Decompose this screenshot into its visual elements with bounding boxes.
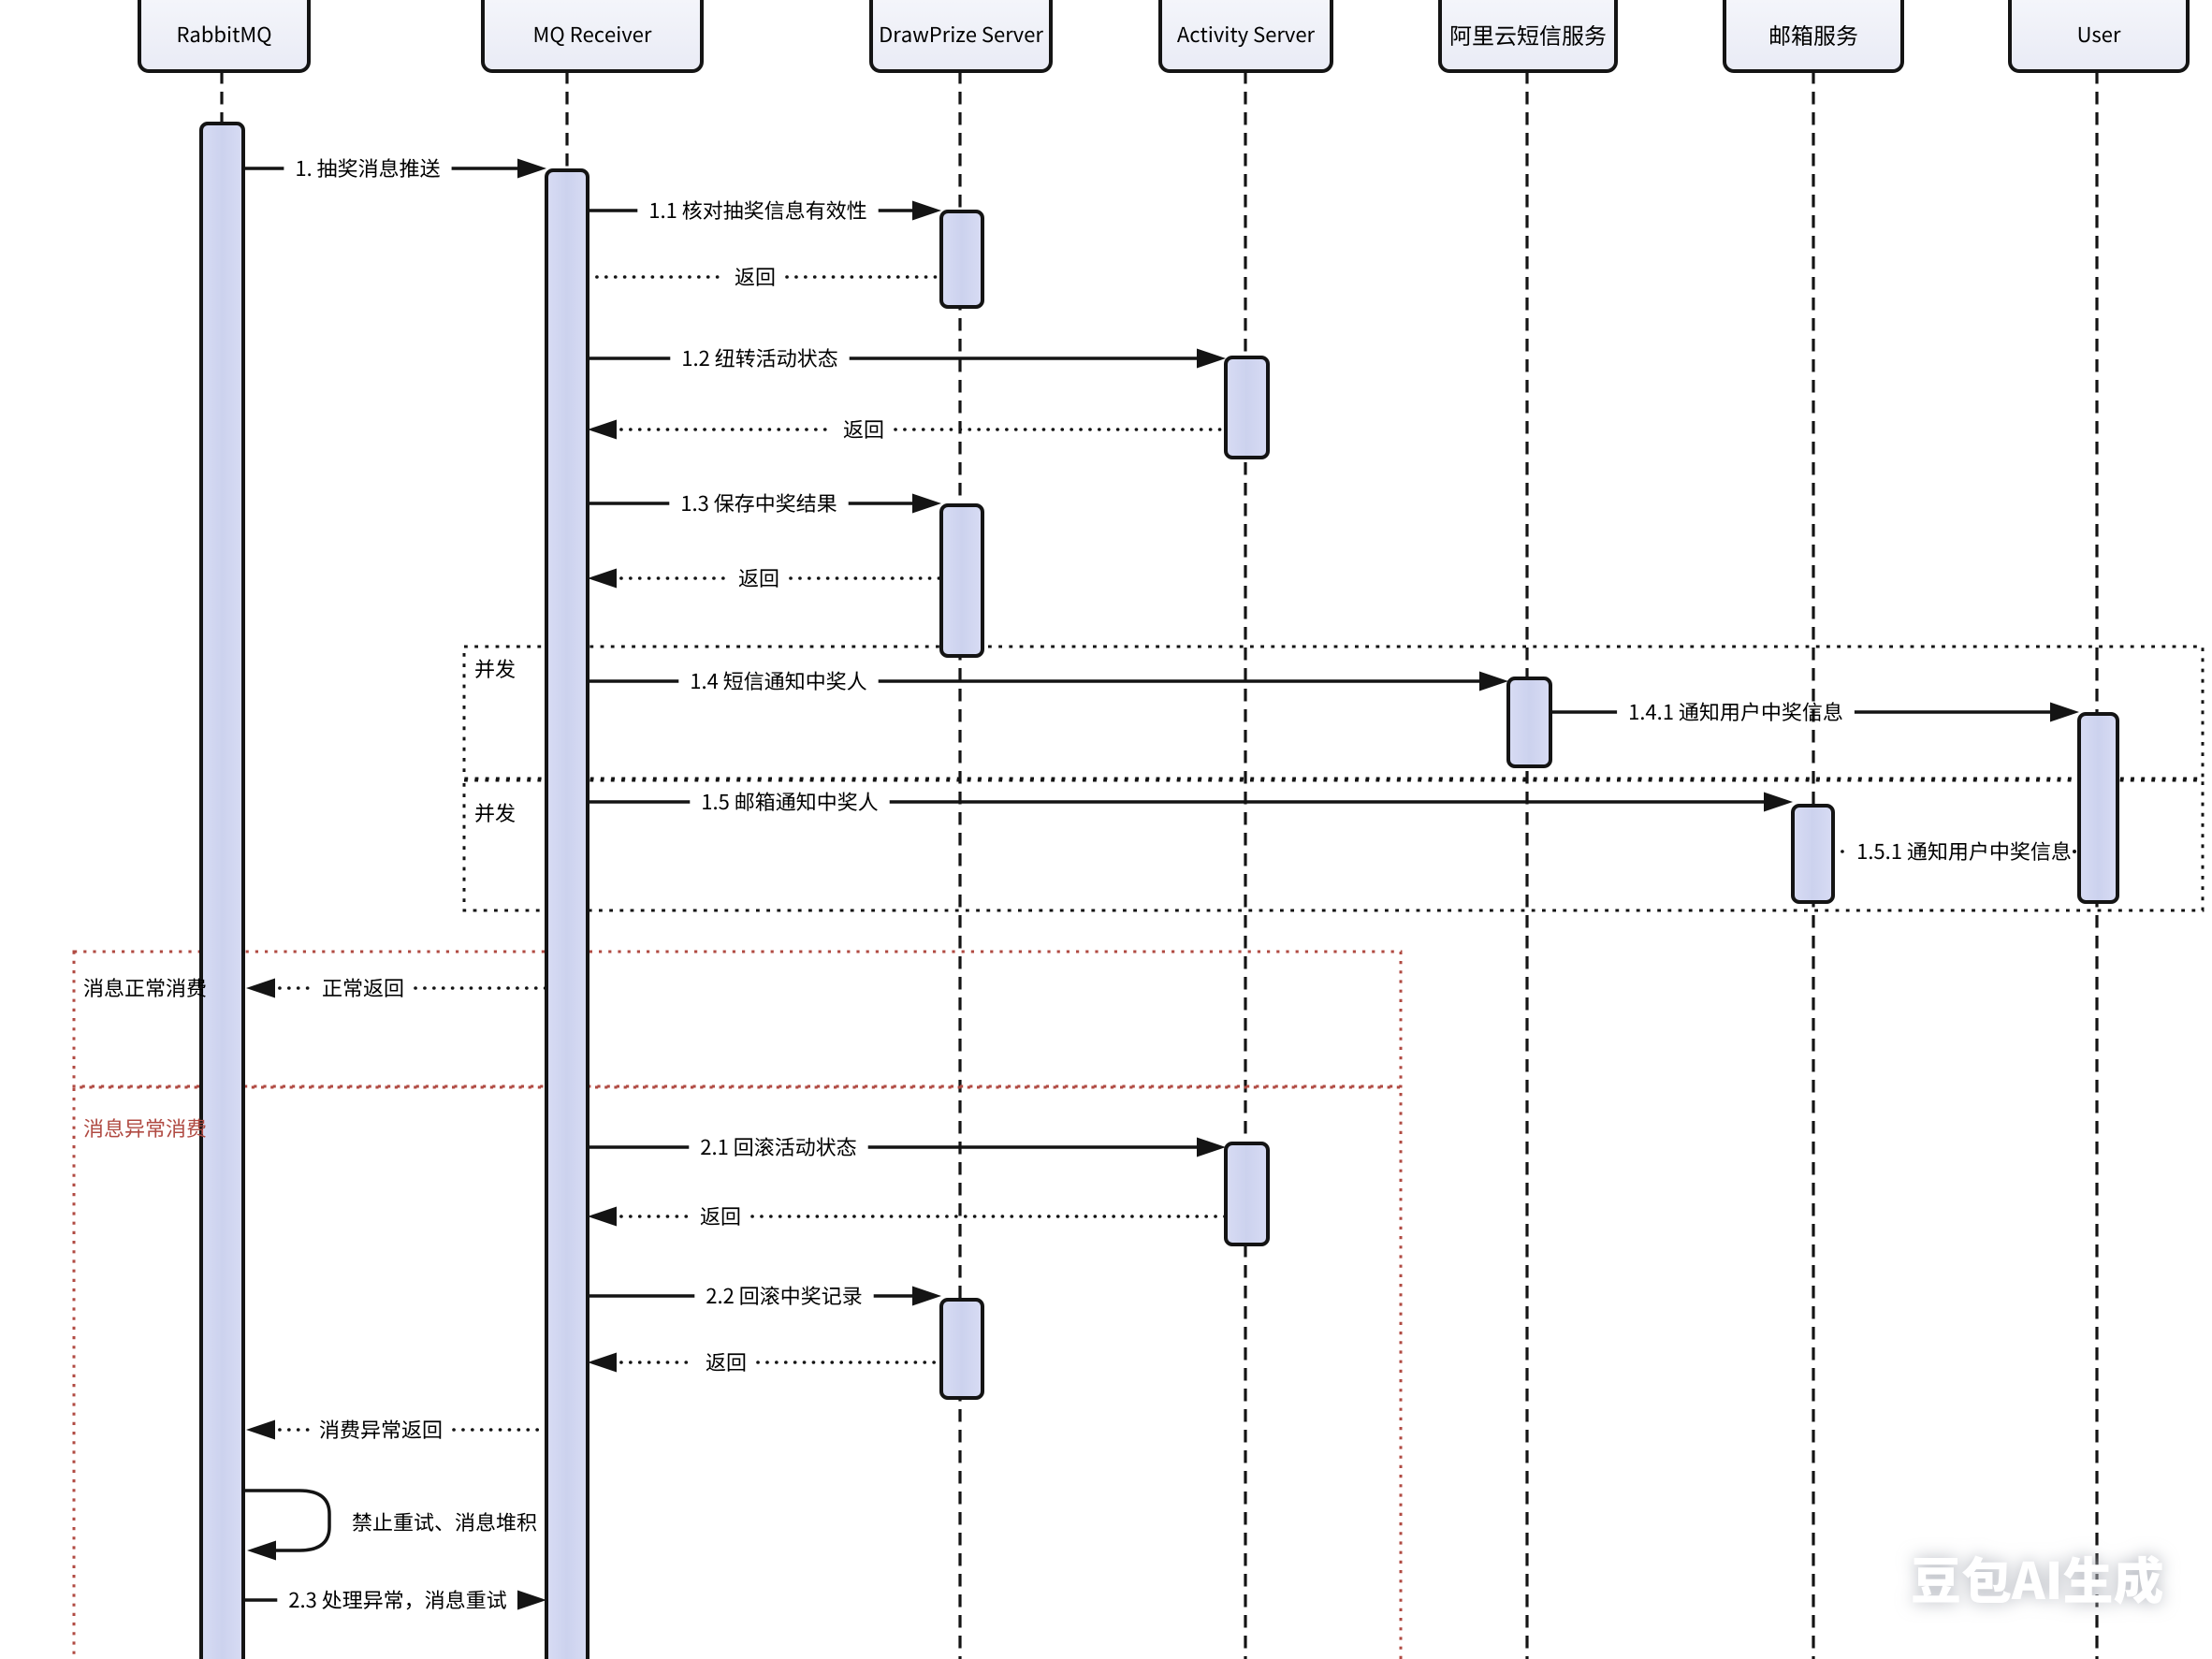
label no-retry: [353, 1512, 536, 1531]
participant RabbitMQ: [139, 0, 309, 71]
MQ Receiver activation: [546, 170, 588, 1659]
fragment normal-consume border (red): [74, 952, 1401, 1086]
participant Activity Server: [1160, 0, 1332, 71]
self message no-retry loop: [245, 1491, 329, 1561]
message 1.3 save result: [589, 493, 941, 513]
lifeline RabbitMQ: [220, 71, 223, 1659]
message 2.2 rollback win record: [589, 1286, 941, 1305]
label par-2: [475, 803, 515, 822]
Activity activation 2: [1226, 1143, 1268, 1244]
lifeline mail: [1812, 71, 1814, 1659]
message 1.5 mail notify winner: [589, 792, 1793, 811]
message 1.4 sms notify winner: [589, 671, 1508, 691]
DrawPrize activation 2: [941, 505, 982, 656]
return abnormal: [246, 1419, 546, 1439]
DrawPrize activation 1: [941, 211, 982, 307]
label normal consume: [84, 978, 206, 997]
label abnormal consume: [84, 1118, 206, 1138]
SMS activation: [1508, 678, 1550, 766]
message 1.4.1 notify user: [1550, 702, 2079, 721]
return 2.1: [588, 1207, 1226, 1227]
fragment par-1 border (concurrent sms): [464, 647, 2203, 779]
return 1.2: [588, 420, 1226, 440]
lifeline aliyun sms: [1525, 71, 1528, 1659]
participant User: [2010, 0, 2188, 71]
fragment par-2 border (concurrent mail): [464, 780, 2203, 910]
RabbitMQ activation: [201, 124, 243, 1659]
participant Aliyun SMS service: [1440, 0, 1616, 71]
label par-1: [475, 659, 515, 677]
lifeline User: [2095, 71, 2098, 1659]
watermark doubao AI: [1913, 1555, 2162, 1605]
DrawPrize activation 3: [941, 1300, 982, 1398]
message 1.2 flip activity state: [589, 348, 1226, 368]
return normal: [246, 978, 546, 997]
message 1.1 verify draw info: [589, 200, 941, 220]
return 2.2: [588, 1353, 941, 1373]
message 2.3 handle exception retry: [245, 1590, 546, 1609]
User activation: [2079, 714, 2117, 902]
lifeline DrawPrize Server: [958, 71, 961, 1659]
return 1.3: [588, 569, 941, 589]
message 2.1 rollback activity state: [589, 1137, 1226, 1157]
Activity activation 1: [1226, 357, 1268, 458]
Mail activation: [1793, 806, 1833, 902]
message 1 lottery push: [245, 158, 546, 178]
return 1.1: [588, 268, 941, 286]
lifeline Activity Server: [1244, 71, 1246, 1659]
lifeline MQ Receiver: [565, 71, 568, 1659]
fragment abnormal-consume border (red, open bottom): [74, 1087, 1401, 1659]
participant Mail service: [1724, 0, 1902, 71]
participant MQ Receiver: [483, 0, 702, 71]
participant DrawPrize Server: [871, 0, 1051, 71]
message 1.5.1 notify user: [1833, 841, 2076, 861]
